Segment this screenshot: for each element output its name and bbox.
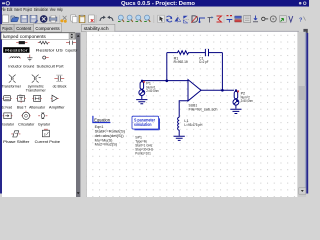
port P1 (139, 81, 145, 99)
svg-text:det=abs(det(S)): det=abs(det(S)) (95, 134, 125, 138)
label P2 (241, 92, 253, 103)
svg-text:dc Feed: dc Feed (2, 106, 13, 110)
svg-text:dc Block: dc Block (53, 84, 67, 88)
equation Eqn1 (93, 116, 126, 147)
wire feedback right vertical (221, 53, 223, 91)
titlebar left buttons (2, 2, 5, 4)
close doc (40, 15, 48, 23)
icon symmetric transformer (32, 75, 41, 83)
junction node at feedback/input (165, 79, 168, 82)
save all (30, 15, 38, 23)
select (158, 15, 164, 22)
open (11, 16, 19, 22)
icon resistor eu (16, 41, 27, 44)
svg-text:Phase Shifter: Phase Shifter (3, 140, 30, 144)
icon dc feed (2, 96, 11, 101)
delete (89, 15, 95, 23)
wire from amplifier to L1 (179, 101, 188, 118)
wire between R1 and C1 (190, 52, 206, 54)
arrow down icon (253, 16, 258, 22)
icon resistor us (38, 41, 50, 44)
mirror x (183, 16, 189, 23)
svg-text:Circulator: Circulator (18, 122, 35, 126)
window frame right (306, 33, 308, 194)
svg-text:Qucs 0.0.5 - Project: Demo: Qucs 0.0.5 - Project: Demo (121, 1, 195, 7)
subcircuit icon (280, 16, 287, 23)
resistor R1 (176, 51, 190, 55)
svg-text:R=992.19: R=992.19 (174, 60, 188, 64)
svg-text:Edit: Edit (7, 7, 13, 13)
svg-text:Resistor US: Resistor US (36, 49, 64, 53)
label P1 (146, 82, 158, 93)
palette icons (2, 41, 76, 138)
insert label (208, 16, 214, 22)
ground below L1 (174, 136, 185, 140)
icon transformer (9, 75, 16, 83)
svg-text:Gyrator: Gyrator (38, 122, 51, 126)
op-amp U1 triangle SUB1 (188, 80, 201, 101)
undo (100, 16, 106, 21)
svg-text:View: View (50, 7, 56, 13)
title bar (0, 0, 309, 7)
separator (223, 15, 226, 23)
ground below P1 (136, 100, 147, 104)
zoom out (136, 15, 142, 22)
text doc icon (244, 15, 251, 22)
window background (0, 0, 309, 197)
new (3, 15, 9, 23)
svg-text:Attenuator: Attenuator (29, 106, 46, 110)
icon circulator (21, 111, 30, 120)
cut (60, 16, 66, 23)
icon port (43, 56, 49, 59)
icon capacitor (66, 41, 76, 45)
P2 red arrow (237, 91, 239, 93)
svg-text:lumped components: lumped components (3, 34, 47, 39)
tab scroll buttons (303, 29, 307, 33)
schematic labels (146, 56, 252, 127)
svg-text:Eqn1: Eqn1 (95, 125, 104, 129)
inductor L1 (178, 117, 180, 130)
capacitor C1 (205, 49, 208, 56)
svg-text:Points=101: Points=101 (135, 151, 151, 155)
svg-text:Subcircuit Port: Subcircuit Port (37, 64, 64, 68)
label SUB1 (189, 104, 218, 112)
svg-text:File: File (1, 7, 6, 13)
svg-text:Current Probe: Current Probe (35, 140, 60, 144)
zoom fit (144, 15, 150, 22)
help icon (299, 17, 306, 24)
insert ground (227, 16, 233, 23)
left tab row (1, 24, 62, 32)
port circle icon (262, 17, 269, 20)
ground below P2 (230, 109, 241, 113)
svg-text:Components: Components (35, 26, 60, 31)
palette labels (2, 47, 78, 144)
svg-text:Mu=Mu(S): Mu=Mu(S) (95, 138, 114, 142)
svg-text:Isolator: Isolator (2, 122, 14, 126)
insert port (235, 16, 242, 22)
junction node at output (221, 89, 224, 92)
svg-text:Ground: Ground (23, 64, 34, 68)
svg-text:Z=50 Ohm: Z=50 Ohm (241, 99, 253, 103)
zoom in (118, 15, 124, 22)
icon current probe (42, 129, 49, 138)
svg-text:StabK=Rollet(S): StabK=Rollet(S) (95, 130, 126, 134)
svg-text:Resistor: Resistor (5, 49, 29, 53)
wire L1 to ground (178, 130, 180, 136)
svg-text:File=fet_sub.sch: File=fet_sub.sch (189, 107, 218, 111)
P1 red arrow (143, 81, 145, 83)
insert equation-icon (217, 16, 222, 22)
svg-text:Transformer: Transformer (2, 84, 22, 88)
svg-text:Simulation: Simulation (34, 7, 49, 13)
menu bar (2, 7, 307, 14)
S parameter simulation SP1 (132, 116, 159, 155)
svg-text:Z=50 Ohm: Z=50 Ohm (146, 89, 158, 93)
svg-text:L=95.475 pH: L=95.475 pH (184, 123, 202, 127)
svg-text:Project: Project (23, 7, 32, 13)
icon amplifier (51, 95, 59, 101)
rotate (166, 16, 172, 22)
paste (79, 15, 85, 23)
redo (107, 16, 113, 21)
svg-text:Mu2=Mu2(S): Mu2=Mu2(S) (95, 143, 118, 147)
component palette background (2, 40, 76, 198)
svg-text:Capacitor: Capacitor (65, 49, 78, 53)
save (21, 15, 28, 22)
label L1 (184, 119, 202, 127)
icon gyrator (38, 113, 47, 119)
svg-text:Amplifier: Amplifier (49, 106, 66, 110)
svg-text:Projects: Projects (2, 26, 13, 31)
schematic tab (82, 24, 308, 33)
schematic canvas (85, 32, 88, 197)
icon inductor (9, 57, 21, 58)
wire output (201, 89, 234, 91)
window frame left (0, 0, 2, 194)
label C1 (199, 56, 209, 64)
icon dc block (54, 75, 64, 81)
wire feedback left vertical (166, 53, 168, 81)
icon ground (27, 55, 32, 61)
svg-text:Content: Content (16, 26, 32, 31)
wire feedback top left segment (167, 52, 177, 54)
svg-text:Transformer: Transformer (26, 88, 47, 92)
separator (95, 15, 98, 23)
separator (152, 15, 155, 23)
svg-text:stability.sch: stability.sch (84, 26, 110, 31)
deactivate (191, 16, 197, 23)
svg-text:I: I (44, 132, 45, 138)
svg-text:Equation: Equation (94, 117, 110, 122)
copy (71, 15, 77, 23)
icon isolator (3, 113, 13, 119)
titlebar right buttons (299, 2, 302, 5)
right scrollbar (298, 32, 306, 197)
svg-text:Help: Help (57, 7, 63, 13)
print (50, 15, 57, 22)
zoom 1:1 (127, 15, 133, 22)
icon bias t (16, 95, 25, 103)
port P2 (233, 90, 239, 108)
wire feedback top right segment (209, 52, 223, 54)
svg-text:Bias T: Bias T (17, 106, 27, 110)
svg-text:simulation: simulation (134, 122, 152, 127)
toolbar (2, 14, 307, 24)
node at P1 top (141, 80, 143, 82)
palette scrollbar (76, 33, 80, 197)
node at P2 top (235, 89, 237, 91)
label R1 (174, 56, 188, 64)
mirror y (175, 15, 181, 22)
V icon (289, 16, 293, 22)
wire input from P1 to amplifier (142, 80, 188, 82)
insert wire (199, 18, 206, 23)
icon phase shifter (11, 131, 20, 137)
schematic circuit (136, 49, 241, 140)
rotate grey icon (270, 16, 276, 22)
icon attenuator (32, 95, 41, 101)
svg-text:Insert: Insert (14, 7, 22, 13)
svg-text:C=2 pF: C=2 pF (199, 60, 209, 64)
svg-text:Inductor: Inductor (8, 64, 22, 68)
combobox lumped components (1, 33, 75, 40)
